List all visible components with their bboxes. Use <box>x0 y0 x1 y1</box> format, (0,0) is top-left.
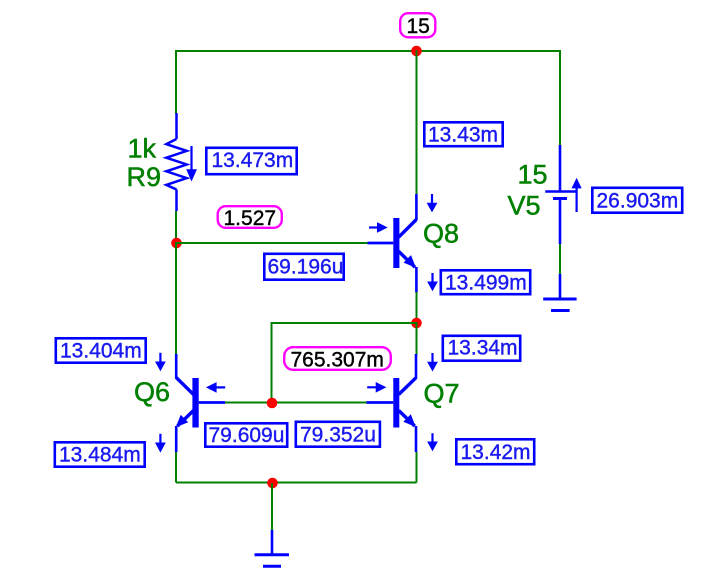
Q7 emitter current box 13.42m <box>456 439 534 464</box>
wire left rail to node <box>175 211 177 244</box>
wire Q7 collector <box>416 322 418 355</box>
wire left rail upper <box>175 50 177 114</box>
wire top rail <box>176 50 560 52</box>
transistor Q8 <box>368 194 417 293</box>
svg-text:13.42m: 13.42m <box>461 441 531 464</box>
R9 current arrow <box>186 146 197 182</box>
svg-text:15: 15 <box>407 15 430 38</box>
junction base rail <box>267 398 278 409</box>
Q8 collector current box 13.43m <box>424 122 502 146</box>
junction top <box>411 46 422 57</box>
Q8 emitter arrow <box>427 273 438 291</box>
svg-text:79.609u: 79.609u <box>209 424 285 447</box>
resistor R9 <box>166 113 186 211</box>
Q7 emitter arrow <box>427 433 438 451</box>
Q6 base arrow <box>206 382 225 393</box>
svg-text:765.307m: 765.307m <box>291 349 384 372</box>
V5 supply wire <box>559 51 560 146</box>
Q6 collector current box 13.404m <box>56 338 146 362</box>
svg-text:13.499m: 13.499m <box>445 272 527 295</box>
svg-text:69.196u: 69.196u <box>268 256 344 279</box>
V5 current box 26.903m <box>592 188 682 213</box>
Q8 base arrow <box>369 222 388 233</box>
Q8 base current box 69.196u <box>264 254 343 280</box>
node 15 (top net label) <box>400 13 435 38</box>
Q7 collector current box 13.34m <box>443 336 520 361</box>
svg-text:R9: R9 <box>127 162 162 192</box>
junction mid <box>411 318 422 329</box>
wire V5 to ground <box>559 244 561 274</box>
wire ground stub <box>271 483 273 530</box>
V5 current arrow (up) <box>572 178 582 212</box>
svg-text:Q7: Q7 <box>424 379 460 409</box>
wire mid rail (Q8 base net) <box>176 242 368 244</box>
svg-text:26.903m: 26.903m <box>597 190 679 213</box>
svg-text:1.527: 1.527 <box>224 207 277 230</box>
Q7 base current box 79.352u <box>296 422 380 447</box>
ground (bottom) <box>255 530 290 566</box>
svg-text:79.352u: 79.352u <box>300 424 376 447</box>
Q6 emitter current box 13.484m <box>55 442 145 466</box>
svg-text:13.484m: 13.484m <box>59 444 141 467</box>
svg-text:V5: V5 <box>508 191 541 221</box>
svg-text:1k: 1k <box>128 134 157 164</box>
transistor Q7 <box>367 354 416 452</box>
svg-text:13.404m: 13.404m <box>60 340 142 363</box>
R9 current box 13.473m <box>206 148 296 174</box>
Q7 base arrow <box>367 382 386 393</box>
Q6 base current box 79.609u <box>205 423 287 447</box>
node 1.527 label <box>218 206 282 230</box>
wire loop vertical <box>271 322 273 403</box>
wire Q8 emitter down <box>416 292 418 323</box>
svg-text:13.473m: 13.473m <box>212 149 294 172</box>
wire base rail (Q6-Q7) <box>225 402 367 404</box>
transistor Q6 (mirrored) <box>176 354 225 452</box>
wire Q7 emitter bottom <box>416 452 418 483</box>
wire loop horizontal <box>272 322 417 324</box>
wire left rail bottom <box>175 452 177 483</box>
Q7 collector arrow <box>427 353 438 372</box>
wire Q8 collector rail <box>416 50 418 195</box>
junction left <box>171 238 182 249</box>
Q8 collector arrow <box>427 194 438 212</box>
Q6 collector arrow <box>155 353 166 372</box>
svg-text:13.34m: 13.34m <box>448 337 518 360</box>
Q8 emitter current box 13.499m <box>441 270 530 294</box>
svg-text:Q6: Q6 <box>134 377 170 407</box>
wire left rail lower <box>175 242 177 355</box>
wire bottom rail <box>176 482 417 484</box>
ground (V5) <box>543 274 576 311</box>
Q6 emitter arrow <box>155 434 166 453</box>
junction bottom <box>267 478 278 489</box>
node 765.307m label <box>284 347 391 371</box>
voltage source V5 <box>545 145 576 244</box>
svg-text:13.43m: 13.43m <box>428 124 498 147</box>
svg-text:Q8: Q8 <box>423 219 459 249</box>
svg-text:15: 15 <box>518 160 548 190</box>
